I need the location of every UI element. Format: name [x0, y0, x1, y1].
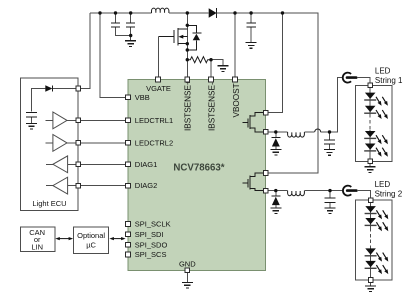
LED D7 [364, 93, 376, 100]
capacitor C1 [115, 13, 117, 22]
diode D5 freewheel buck2 [275, 191, 277, 197]
inductor L2 buck1 [288, 132, 305, 137]
svg-text:NCV78663*: NCV78663* [173, 163, 224, 174]
pin SPI_SDI [126, 232, 131, 237]
wire LED string1 [369, 88, 371, 159]
inductor L3 buck2 [288, 191, 305, 196]
IC U1 NCV78663 body [128, 80, 266, 271]
arrows LED5 light [376, 210, 388, 219]
svg-text:LEDCTRL2: LEDCTRL2 [135, 139, 173, 148]
junction C1 C2 return [129, 34, 132, 37]
pin ECU ledctrl2 out [76, 141, 81, 146]
pin SPI_SCLK [126, 222, 131, 227]
transistor Q1 boost MOSFET [159, 36, 174, 38]
svg-text:VBOOST: VBOOST [232, 83, 241, 117]
arrows LED7 light [376, 253, 388, 262]
arrows LED8 light [376, 265, 388, 274]
wire LED string2 [370, 203, 372, 278]
capacitor C3 [250, 13, 252, 22]
LED String 1 box [355, 85, 391, 161]
buffer B1 LEDCTRL1 [46, 119, 129, 121]
svg-text:String 1: String 1 [375, 76, 403, 85]
ground under C5 [324, 150, 335, 156]
pin ECU ledctrl1 out [76, 118, 81, 123]
ground under D3 [270, 149, 281, 155]
LED D14 [365, 261, 377, 268]
svg-text:LEDCTRL1: LEDCTRL1 [135, 116, 173, 125]
LED D12 [365, 218, 377, 225]
svg-text:Light ECU: Light ECU [32, 199, 66, 208]
junction rail VBOOST pin [233, 11, 236, 14]
junction rail C1 [114, 11, 117, 14]
junction Q1 source node [186, 42, 189, 45]
junction rail VBB feed [98, 11, 101, 14]
wire VBB rail top [90, 12, 152, 14]
junction rail C3 [249, 11, 252, 14]
ground under C6 [325, 208, 336, 214]
wire VBOOST rail [217, 13, 318, 173]
wire IBSTSENSE- pin [210, 60, 212, 80]
svg-text:LIN: LIN [31, 242, 43, 251]
Optional uC box [74, 227, 109, 254]
pin buck2 drain [263, 171, 268, 176]
junction rail boost switch [186, 11, 189, 14]
ground under LED box2 [370, 283, 372, 286]
pin LED string1 anode [368, 83, 373, 88]
arrows LED2 light [376, 110, 388, 119]
pin LEDCTRL1 [126, 118, 131, 123]
wire Q1 gate to VGATE [158, 37, 160, 80]
wire connector to LED string2 [357, 191, 371, 198]
svg-text:IBSTSENSE+: IBSTSENSE+ [184, 80, 193, 131]
pin IC bottom GND [185, 268, 190, 273]
pin LED string2 anode [368, 198, 373, 203]
ground IC GND pin [186, 273, 188, 283]
buffer B4 DIAG2 [46, 185, 128, 187]
pin ECU diag2 in [76, 183, 81, 188]
ground under C4 [26, 123, 37, 129]
pin SPI_SDO [126, 243, 131, 248]
diode D1 boost rectifier [209, 8, 217, 17]
junction rail buck1 drain [281, 11, 284, 14]
arrows LED4 light [376, 148, 388, 157]
wire boost switch node [186, 13, 188, 80]
pin LED string2 cathode [368, 278, 373, 283]
svg-text:µC: µC [86, 240, 96, 249]
pin VBB [126, 95, 131, 100]
pin VGATE [156, 77, 161, 82]
pin IBSTSENSE+ [185, 77, 190, 82]
pin buck2 source [263, 188, 268, 193]
arrows LED6 light [376, 222, 388, 231]
pin ECU diag1 in [76, 162, 81, 167]
junction D2 anode return [186, 48, 189, 51]
junction buck2 freewheel [274, 189, 277, 192]
transistor M2 buck2 high side [243, 182, 248, 184]
capacitor C6 buck2 [329, 191, 331, 198]
LED String 2 box [355, 200, 392, 280]
junction Q1 drain node [186, 24, 189, 27]
LED D13 [365, 248, 377, 255]
diode D3 freewheel buck1 [275, 132, 277, 138]
wire connector to LED string1 [357, 78, 370, 84]
capacitor C5 buck1 [329, 132, 331, 139]
svg-text:GND: GND [179, 260, 196, 269]
wire buck2 out [304, 190, 343, 192]
wire buck2 switch node [266, 190, 288, 192]
arrow CAN to uC [55, 237, 73, 240]
pin IBSTSENSE- [209, 77, 214, 82]
svg-text:LED: LED [375, 66, 391, 75]
pin LEDCTRL2 [126, 141, 131, 146]
LED D11 [365, 206, 377, 213]
pin DIAG1 [126, 162, 131, 167]
junction buck1 cap [328, 130, 331, 133]
junction R1 right [209, 58, 212, 61]
pin buck1 source [263, 130, 268, 135]
connector J2 [343, 186, 351, 196]
arrow uC to SPI [109, 237, 125, 240]
ground boost sense [218, 66, 229, 72]
svg-text:DIAG2: DIAG2 [135, 181, 158, 190]
svg-text:Optional: Optional [77, 231, 105, 240]
wire VBOOST to buck1 drain [266, 13, 283, 113]
pin buck1 drain [263, 110, 268, 115]
LED D8 [364, 106, 376, 113]
diode D2 body diode [187, 25, 196, 50]
buffer B2 LEDCTRL2 [46, 142, 129, 144]
svg-text:DIAG1: DIAG1 [135, 160, 158, 169]
junction buck2 cap [328, 189, 331, 192]
junction R1 left [186, 58, 189, 61]
wire VBOOST pin [234, 13, 236, 80]
transistor M1 buck1 high side [243, 122, 248, 124]
svg-text:VBB: VBB [135, 93, 150, 102]
svg-text:LED: LED [375, 180, 391, 189]
svg-text:IBSTSENSE-: IBSTSENSE- [207, 82, 216, 131]
junction rail C2 [129, 11, 132, 14]
CAN or LIN box [20, 227, 55, 252]
arrows LED1 light [376, 97, 388, 106]
wire rail to diode [169, 12, 209, 14]
svg-text:SPI_SDO: SPI_SDO [135, 240, 168, 249]
svg-text:SPI_SCS: SPI_SCS [135, 250, 167, 259]
capacitor C2 [130, 13, 132, 22]
svg-text:SPI_SDI: SPI_SDI [135, 230, 164, 239]
junction buck1 freewheel [274, 130, 277, 133]
pin DIAG2 [126, 183, 131, 188]
svg-text:SPI_SCLK: SPI_SCLK [135, 220, 171, 229]
inductor L1 boost [152, 8, 169, 13]
pin ECU supply out [76, 86, 81, 91]
LED D10 [364, 144, 376, 151]
Light ECU box [21, 78, 78, 210]
capacitor C4 in ECU [26, 113, 37, 117]
ground under D5 [270, 208, 281, 214]
pin LED string1 cathode [368, 159, 373, 164]
wire left drop to Light ECU [78, 13, 90, 89]
pin VBOOST [233, 77, 238, 82]
buffer B3 DIAG1 [46, 163, 128, 165]
wire VBB feed to pin [100, 13, 128, 97]
wire sense to ground [211, 60, 223, 66]
resistor R1 boost sense [187, 57, 211, 63]
ground under C3 [246, 43, 257, 49]
LED D9 [364, 131, 376, 138]
connector J1 [343, 73, 351, 83]
ground under LED box1 [369, 164, 371, 167]
svg-text:String 2: String 2 [375, 189, 403, 198]
wire buck1 switch node [266, 131, 288, 133]
wire buck1 out with hop [304, 78, 343, 132]
arrows LED3 light [376, 135, 388, 144]
pin SPI_SCS [126, 252, 131, 257]
diode D6 in ECU [53, 88, 78, 90]
ground under C1 C2 [125, 41, 136, 47]
